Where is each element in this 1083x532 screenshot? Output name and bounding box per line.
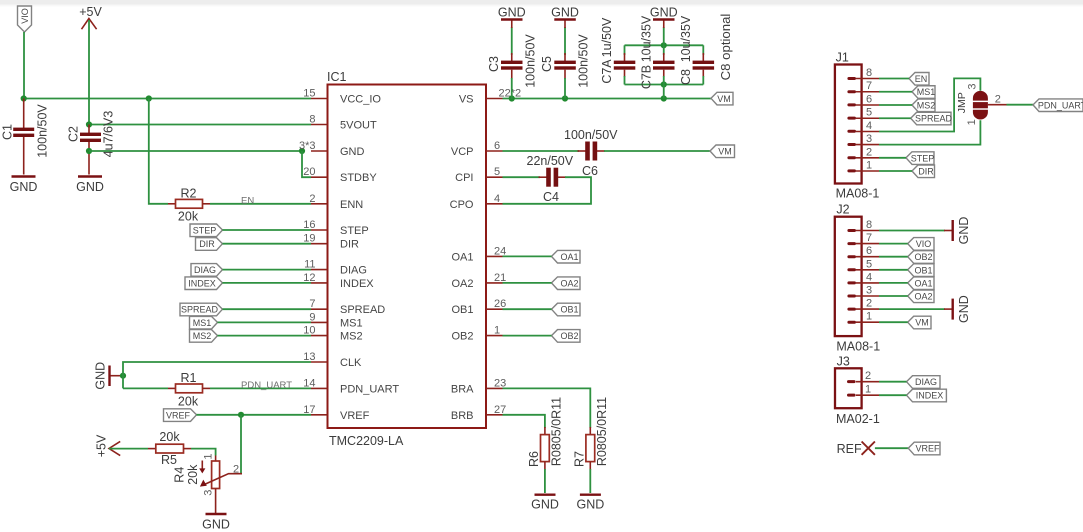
net label VIO (J2 pin7) [908, 238, 934, 251]
svg-text:MA08-1: MA08-1 [836, 187, 880, 201]
J1 pin 4 stub [856, 120, 879, 132]
svg-text:R2: R2 [181, 187, 197, 201]
resistor R7 R0805/0R11 [573, 397, 610, 470]
wire J2 pin8 to GND [879, 230, 945, 232]
svg-text:R6: R6 [527, 451, 541, 467]
svg-text:2: 2 [866, 298, 872, 310]
svg-text:VM: VM [915, 318, 929, 328]
svg-text:GND: GND [94, 362, 108, 390]
J2 pin 5 stub [856, 258, 879, 270]
svg-text:100n/50V: 100n/50V [564, 128, 618, 142]
svg-text:DIAG: DIAG [340, 265, 367, 277]
svg-text:TMC2209-LA: TMC2209-LA [329, 434, 404, 448]
wire J1 pin7 to MS1 [879, 91, 912, 93]
capacitor C1 [1, 99, 50, 175]
J2 pin 4 stub [856, 271, 879, 283]
svg-text:10u/35V: 10u/35V [640, 15, 654, 62]
svg-text:VM: VM [718, 147, 732, 157]
net label OB1 (J2 pin5) [908, 264, 934, 277]
svg-text:ENN: ENN [340, 199, 363, 211]
net label OA2 [552, 277, 581, 290]
svg-text:7: 7 [866, 80, 872, 92]
svg-text:OA1: OA1 [914, 278, 932, 288]
wire +5V down to C2 [88, 20, 90, 125]
svg-text:INDEX: INDEX [188, 278, 216, 288]
wire J2 pin6 to OB2 [879, 256, 908, 258]
svg-text:100n/50V: 100n/50V [577, 34, 591, 88]
svg-text:SPREAD: SPREAD [915, 114, 953, 124]
svg-text:GND: GND [957, 295, 971, 323]
ground GND under C1 [10, 177, 38, 195]
svg-text:GND: GND [202, 518, 230, 532]
node junction VIO/C1 [21, 95, 27, 101]
wire R5 to R4 pin1 [191, 449, 216, 456]
wire GND to R1 [123, 387, 168, 389]
pin OB2 1 [451, 325, 502, 343]
J1 pin 8 pad [847, 77, 856, 80]
svg-text:100n/50V: 100n/50V [36, 104, 50, 158]
pin GND 3*3 [299, 140, 365, 158]
svg-text:C7B: C7B [640, 65, 654, 89]
wire VCP to C6 [503, 150, 580, 152]
ground GND above C3 [498, 6, 526, 29]
wire INDEX [223, 282, 312, 284]
net label STEP [190, 224, 223, 237]
svg-text:8: 8 [309, 114, 315, 126]
ground GND above C7B [650, 6, 678, 29]
svg-text:EN: EN [241, 196, 254, 207]
svg-text:20k: 20k [159, 430, 180, 444]
pin ENN 2 [309, 193, 363, 211]
svg-text:VM: VM [717, 94, 731, 104]
capacitor C7B 10u/35V [640, 15, 675, 98]
svg-text:10u/35V: 10u/35V [679, 15, 693, 62]
net label STEP (J1 pin2) [906, 152, 934, 165]
wire J1 pin6 to MS2 [879, 104, 912, 106]
connector J3 MA02-1 [835, 355, 880, 427]
wire J2 pin3 to OA2 [879, 295, 908, 297]
svg-text:DIAG: DIAG [915, 377, 937, 387]
svg-text:12: 12 [303, 272, 315, 284]
J2 pin 8 stub [856, 219, 879, 231]
pin VS 22*2 [459, 88, 521, 106]
net label DIR [196, 238, 223, 251]
node junction C2 bottom / GND net [86, 148, 92, 154]
capacitor C3 100n/50V [487, 27, 538, 99]
svg-text:4: 4 [494, 193, 500, 205]
net label EN (J1 pin8) [909, 73, 929, 86]
connector J1 MA08-1 [835, 51, 880, 201]
svg-text:2: 2 [865, 370, 871, 382]
wire +5V to R5 [109, 448, 148, 450]
net label MS2 [190, 330, 218, 343]
svg-text:SPREAD: SPREAD [340, 304, 385, 316]
pin CPI 5 [455, 166, 502, 184]
svg-text:17: 17 [303, 404, 315, 416]
ground GND under R6 [531, 495, 559, 512]
wire CPI to C4 [503, 176, 541, 178]
wire SPREAD [223, 308, 312, 310]
wire VS net to VM [503, 98, 712, 100]
pin VCP 6 [451, 140, 503, 158]
svg-text:C8: C8 [679, 69, 693, 85]
svg-text:CPI: CPI [455, 172, 473, 184]
svg-text:STEP: STEP [193, 226, 217, 236]
svg-text:OB2: OB2 [914, 252, 932, 262]
wire J2 pin1 to VM [879, 321, 908, 323]
svg-text:OA2: OA2 [914, 292, 932, 302]
svg-text:1: 1 [966, 119, 978, 125]
ground GND left (CLK/R1) rotated [94, 362, 124, 390]
svg-text:PDN_UART: PDN_UART [1038, 100, 1083, 110]
svg-text:DIR: DIR [340, 239, 359, 251]
wire VREF to pin 17 [197, 414, 312, 416]
svg-text:C3: C3 [487, 56, 501, 72]
svg-text:BRB: BRB [451, 410, 474, 422]
svg-text:7: 7 [866, 232, 872, 244]
svg-text:MS2: MS2 [917, 101, 936, 111]
svg-text:1: 1 [865, 384, 871, 396]
pin OB1 26 [451, 298, 506, 316]
svg-text:100n/50V: 100n/50V [524, 34, 538, 88]
svg-text:15: 15 [303, 88, 315, 100]
svg-text:MS1: MS1 [193, 318, 212, 328]
ground GND at J2 pin8 rotated [944, 217, 971, 245]
capacitor C7A 1u/50V [600, 17, 635, 84]
pin DIAG 11 [304, 259, 367, 277]
net label OB2 [552, 330, 581, 343]
svg-text:BRA: BRA [451, 383, 474, 395]
wire J1 pin5 to SPREAD [879, 117, 911, 119]
wire MS1 [218, 321, 312, 323]
supply +5V top [79, 5, 102, 29]
svg-text:2: 2 [309, 193, 315, 205]
resistor R2 20k [168, 187, 210, 224]
J1 pin 6 pad [847, 103, 856, 106]
pin SPREAD 7 [309, 298, 385, 316]
net label VM middle [710, 145, 735, 158]
svg-text:J3: J3 [837, 355, 850, 369]
pin BRB 27 [451, 404, 506, 422]
wire DIAG [223, 269, 312, 271]
svg-text:J2: J2 [836, 203, 849, 217]
svg-text:GND: GND [957, 217, 971, 245]
svg-text:STDBY: STDBY [340, 172, 377, 184]
svg-text:SPREAD: SPREAD [181, 305, 219, 315]
svg-text:DIAG: DIAG [194, 265, 216, 275]
net label OA1 [552, 250, 581, 263]
svg-text:VCC_IO: VCC_IO [340, 94, 381, 106]
pin CLK 13 [303, 351, 362, 369]
supply +5V lower [95, 434, 121, 457]
capacitor C4 22n/50V [527, 154, 574, 204]
wire JMP pin2 to PDN_UART [1007, 104, 1034, 106]
pin 5VOUT 8 [309, 114, 377, 132]
net label DIR (J1 pin1) [912, 165, 935, 178]
svg-text:+5V: +5V [95, 434, 109, 457]
svg-text:20: 20 [303, 166, 315, 178]
J1 pin 1 stub [856, 160, 879, 172]
svg-text:STEP: STEP [340, 225, 369, 237]
svg-text:OA1: OA1 [451, 251, 473, 263]
J2 pin 2 pad [847, 308, 856, 311]
pin CPO 4 [450, 193, 503, 211]
wire BRA to R7 [503, 388, 591, 428]
J2 pin 7 pad [847, 242, 856, 245]
svg-text:2: 2 [866, 146, 872, 158]
wire J2 pin2 to GND [879, 308, 945, 310]
net label SPREAD (J1 pin5) [911, 112, 953, 125]
svg-text:3: 3 [866, 285, 872, 297]
R4 adjust arrow [201, 461, 203, 470]
svg-text:1u/50V: 1u/50V [600, 17, 614, 57]
svg-text:20k: 20k [178, 210, 199, 224]
svg-text:GND: GND [76, 180, 104, 194]
wire C7 parallel bus top [625, 44, 704, 46]
svg-text:OB2: OB2 [560, 331, 578, 341]
wire GND net to IC GND pin [89, 150, 302, 152]
svg-text:5VOUT: 5VOUT [340, 120, 377, 132]
net label MS1 (J1 pin7) [912, 86, 935, 99]
svg-text:C2: C2 [67, 126, 81, 142]
net label PDN_UART [1033, 99, 1083, 112]
svg-text:10: 10 [303, 325, 315, 337]
potentiometer R4 20k [173, 453, 243, 513]
pin MS2 10 [303, 325, 362, 343]
svg-text:GND: GND [340, 146, 365, 158]
svg-text:14: 14 [303, 377, 315, 389]
resistor R5 20k [148, 430, 191, 467]
wire J1 pin8 to EN [879, 78, 909, 80]
svg-text:C5: C5 [540, 56, 554, 72]
svg-text:C8 optional: C8 optional [718, 14, 733, 81]
svg-text:INDEX: INDEX [916, 391, 944, 401]
J2 pin 7 stub [856, 232, 879, 244]
net label OA1 (J2 pin4) [908, 277, 934, 290]
svg-text:OB1: OB1 [451, 304, 473, 316]
svg-text:DIR: DIR [199, 239, 215, 249]
J1 pin 4 pad [847, 130, 856, 133]
svg-text:EN: EN [915, 74, 928, 84]
wire MS2 [218, 335, 312, 337]
resistor R6 R0805/0R11 [527, 397, 564, 470]
svg-text:OB2: OB2 [451, 331, 473, 343]
wire REF to VREF [875, 447, 908, 449]
J2 pin 4 pad [847, 281, 856, 284]
svg-text:7: 7 [309, 298, 315, 310]
svg-text:20k: 20k [178, 395, 199, 409]
ground GND under R7 [577, 495, 605, 512]
J2 pin 1 pad [847, 321, 856, 324]
svg-text:6: 6 [494, 140, 500, 152]
J1 pin 5 pad [847, 117, 856, 120]
svg-text:6: 6 [866, 94, 872, 106]
wire R2 to ENN pin [210, 203, 311, 205]
J2 pin 1 stub [856, 311, 879, 323]
svg-text:8: 8 [866, 219, 872, 231]
wire C7 parallel bus bottom [625, 84, 704, 86]
J3 pin 2 stub [856, 370, 879, 382]
wire GND to CLK [123, 362, 311, 388]
svg-text:INDEX: INDEX [340, 278, 374, 290]
supply flag VIO [18, 6, 32, 32]
node junction C7 group/VS [661, 95, 667, 101]
svg-text:1: 1 [494, 325, 500, 337]
pin STDBY 20 [303, 166, 377, 184]
J2 pin 5 pad [847, 268, 856, 271]
svg-text:MS1: MS1 [340, 317, 363, 329]
J1 pin 8 stub [856, 67, 879, 79]
svg-text:GND: GND [531, 498, 559, 512]
R4 wiper [204, 474, 243, 485]
J3 pin 2 pad [847, 380, 856, 383]
svg-text:GND: GND [498, 6, 526, 20]
IC U1 TMC2209-LA body [327, 70, 486, 448]
wire +5V rail down to R2 [149, 99, 168, 204]
svg-text:VCP: VCP [451, 146, 474, 158]
connector J2 MA08-1 [835, 203, 880, 354]
ground GND above C5 [551, 6, 579, 29]
J1 pin 2 stub [856, 146, 879, 158]
svg-text:+5V: +5V [79, 5, 102, 19]
svg-text:3*3: 3*3 [299, 140, 316, 152]
svg-text:C7A: C7A [600, 59, 614, 84]
pin PDN_UART 14 [303, 377, 399, 395]
J3 pin 1 stub [856, 384, 879, 396]
wire C4 to CPO [503, 177, 592, 204]
pin INDEX 12 [303, 272, 374, 290]
wire J3 pin1 to INDEX [879, 394, 907, 396]
wire J2 pin5 to OB1 [879, 269, 908, 271]
J1 pin 3 pad [847, 143, 856, 146]
svg-text:GND: GND [551, 6, 579, 20]
svg-text:OA1: OA1 [560, 252, 578, 262]
svg-text:J1: J1 [836, 51, 849, 65]
svg-text:OA2: OA2 [451, 278, 473, 290]
svg-text:1: 1 [203, 453, 215, 459]
svg-text:IC1: IC1 [327, 70, 347, 84]
svg-text:VREF: VREF [915, 444, 940, 454]
net label MS2 (J1 pin6) [912, 99, 935, 112]
capacitor C5 100n/50V [540, 27, 591, 99]
svg-text:R7: R7 [573, 451, 587, 467]
wire GND to STDBY [302, 151, 311, 177]
wire R1 to PDN_UART pin [210, 387, 311, 389]
svg-text:4: 4 [866, 120, 872, 132]
J1 pin 3 stub [856, 133, 879, 145]
capacitor C2 [67, 111, 116, 175]
svg-text:5: 5 [494, 166, 500, 178]
J2 pin 6 stub [856, 245, 879, 257]
solder jumper JMP [956, 83, 1007, 125]
svg-text:5: 5 [866, 107, 872, 119]
J2 pin 2 stub [856, 298, 879, 310]
net label OB1 [552, 303, 581, 316]
wire OA1 [503, 255, 552, 257]
svg-text:1: 1 [866, 311, 872, 323]
wire R7 to GND [589, 469, 591, 493]
wire C6 to VM [604, 150, 710, 152]
J2 pin 3 stub [856, 285, 879, 297]
pin OA2 21 [451, 272, 506, 290]
wire J1 pin4 to JMP pin3 [879, 78, 980, 131]
J1 pin 6 stub [856, 94, 879, 106]
capacitor C8 10u/35V [679, 15, 714, 85]
svg-text:MS2: MS2 [340, 331, 363, 343]
svg-text:PDN_UART: PDN_UART [241, 380, 292, 391]
pin MS1 9 [309, 311, 362, 329]
resistor R1 20k [168, 371, 210, 409]
svg-text:MA08-1: MA08-1 [836, 340, 880, 354]
svg-text:6: 6 [866, 245, 872, 257]
svg-text:13: 13 [303, 351, 315, 363]
svg-text:PDN_UART: PDN_UART [340, 383, 399, 395]
svg-text:REF: REF [837, 442, 862, 456]
ground GND under R4 [202, 514, 230, 532]
net label VREF [164, 409, 197, 422]
wire STEP [223, 229, 312, 231]
J3 pin 1 pad [847, 394, 856, 397]
svg-text:19: 19 [303, 233, 315, 245]
ground GND at J2 pin2 rotated [944, 295, 971, 323]
svg-text:R0805/0R11: R0805/0R11 [550, 397, 564, 466]
svg-text:1: 1 [866, 160, 872, 172]
wire DIR [223, 243, 312, 245]
J1 pin 5 stub [856, 107, 879, 119]
svg-text:OA2: OA2 [560, 278, 578, 288]
svg-text:VREF: VREF [166, 410, 191, 420]
svg-text:9: 9 [309, 311, 315, 323]
svg-text:VREF: VREF [340, 410, 370, 422]
pin BRA 23 [451, 377, 506, 395]
pin VREF 17 [303, 404, 369, 422]
wire OB1 [503, 308, 552, 310]
svg-text:3: 3 [203, 490, 215, 496]
pin DIR 19 [303, 233, 359, 251]
net label MS1 [190, 316, 218, 329]
wire OA2 [503, 282, 552, 284]
svg-text:C4: C4 [543, 190, 559, 204]
node junction C3/VS [509, 95, 515, 101]
net label VREF (REF) [908, 442, 940, 455]
node REF with no-connect cross [837, 442, 875, 457]
svg-text:11: 11 [304, 259, 315, 271]
svg-text:R0805/0R11: R0805/0R11 [595, 397, 609, 466]
svg-text:JMP: JMP [956, 92, 968, 113]
capacitor C6 100n/50V [564, 128, 618, 178]
wire R6 to GND [544, 469, 546, 493]
wire OB2 [503, 335, 552, 337]
svg-text:R1: R1 [181, 371, 197, 385]
node junction bus bottom [661, 81, 667, 87]
pin STEP 16 [303, 219, 368, 237]
svg-text:OB1: OB1 [914, 265, 932, 275]
svg-text:5: 5 [866, 258, 872, 270]
svg-text:GND: GND [650, 6, 678, 20]
pin OA1 24 [451, 245, 506, 263]
J1 pin 7 pad [847, 90, 856, 93]
svg-text:GND: GND [577, 498, 605, 512]
net label VM (J2 pin1) [908, 316, 931, 329]
net label DIAG (J3 pin2) [907, 376, 941, 389]
node junction C2 top [86, 121, 92, 127]
svg-text:4: 4 [866, 271, 872, 283]
wire BRB to R6 [503, 415, 545, 428]
wire VCC_IO horizontal [24, 98, 312, 100]
svg-text:20k: 20k [186, 464, 200, 485]
wire J2 pin4 to OA1 [879, 282, 908, 284]
wire VREF down to R4 wiper [240, 415, 242, 474]
